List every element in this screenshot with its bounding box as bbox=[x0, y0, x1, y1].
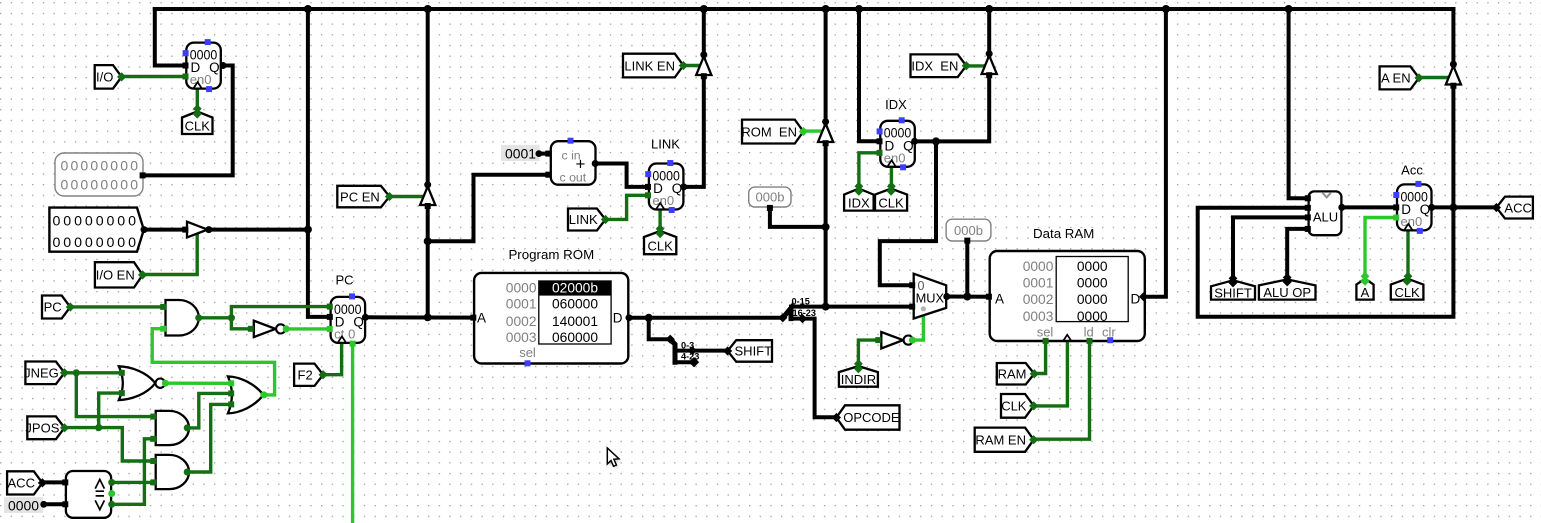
wire CLK to I/O register clock bbox=[196, 89, 199, 111]
pin in2 AND3 bbox=[150, 479, 156, 485]
counter PC bbox=[331, 293, 366, 343]
wire ROM EN to buffer enable bbox=[803, 129, 821, 132]
pin D I/O register bbox=[183, 63, 189, 69]
wire IDX tunnel to IDX enable bbox=[859, 153, 880, 188]
tunnel OPCODE bbox=[832, 405, 900, 429]
wire trunk to ALU input A bbox=[1289, 9, 1309, 198]
svg-text:0001: 0001 bbox=[506, 297, 537, 312]
pin Q Acc bbox=[1428, 204, 1435, 211]
tunnel INDIR bbox=[839, 364, 878, 387]
wire probe 000b tap bbox=[770, 208, 826, 227]
AND gate A3 (JPOS and gt) bbox=[156, 455, 189, 489]
pin en PC bbox=[327, 326, 333, 332]
pin en I/O register bbox=[183, 74, 189, 80]
tunnel ALU OP bbox=[1259, 277, 1316, 300]
pin D PC bbox=[327, 314, 333, 320]
svg-text:02000b: 02000b bbox=[552, 281, 598, 296]
NOR gate (jump negative) bbox=[119, 366, 165, 400]
svg-text:ALU: ALU bbox=[1313, 210, 1338, 225]
MUX (IDX / literal address) bbox=[914, 274, 947, 319]
wire I/O EN to buffer enable bbox=[143, 234, 198, 275]
pin lt comparator bbox=[108, 501, 115, 508]
tunnel RAM bbox=[997, 363, 1039, 385]
svg-text:0003: 0003 bbox=[1023, 309, 1054, 324]
pin in IDX EN buffer bbox=[986, 72, 992, 78]
comparator (ACC vs 0) bbox=[66, 471, 111, 518]
RAM Data RAM bbox=[990, 251, 1145, 343]
svg-text:ACC: ACC bbox=[8, 476, 35, 491]
tunnel A EN bbox=[1380, 66, 1424, 89]
wire AND2 out to OR bbox=[188, 393, 230, 428]
pin in1 AND2 bbox=[150, 414, 156, 420]
AND gate A1 (PC load) bbox=[166, 300, 199, 336]
node AND1 output branch bbox=[228, 314, 235, 321]
pin out I/O buffer bbox=[205, 226, 212, 233]
node INDIR wire end bbox=[854, 359, 863, 368]
svg-text:RAM EN: RAM EN bbox=[975, 432, 1026, 447]
wire LINK Q to LINK EN buffer bbox=[683, 75, 704, 187]
pin A ALU bbox=[1305, 195, 1311, 201]
wire OR out to AND1 bbox=[152, 329, 274, 395]
pin out ALU bbox=[1338, 204, 1345, 211]
tunnel LINK bbox=[568, 209, 610, 231]
pin in A EN buffer bbox=[1450, 83, 1456, 89]
pin shift ALU bbox=[1305, 214, 1311, 220]
svg-text:Data RAM: Data RAM bbox=[1033, 226, 1094, 241]
controlled buffer PC EN bbox=[420, 187, 435, 206]
node trunk ROM EN bbox=[822, 5, 830, 13]
pin out LINK EN buffer bbox=[700, 51, 707, 58]
register I/O buffer bbox=[183, 39, 221, 92]
wire splitter 0-15 to MUX input 1 bbox=[802, 305, 912, 309]
pin Q PC bbox=[362, 314, 369, 321]
wire PC tunnel to AND gate bbox=[70, 305, 165, 308]
pin Q LINK bbox=[680, 183, 687, 190]
pin out NOT1 bbox=[283, 325, 290, 332]
pin D IDX bbox=[877, 138, 883, 144]
wire PC carry out bbox=[351, 343, 354, 523]
pin en LINK bbox=[645, 192, 651, 198]
svg-text:JPOS: JPOS bbox=[25, 421, 59, 436]
tunnel CLK bbox=[1391, 277, 1424, 300]
wire IDX Q to IDX EN buffer bbox=[936, 74, 989, 142]
node IDX Q branch bbox=[932, 137, 940, 145]
wire ACC tunnel to comparator A bbox=[42, 480, 66, 484]
wire IDX EN to buffer enable bbox=[966, 64, 985, 67]
pin out MUX bbox=[943, 293, 950, 300]
pin out AND3 bbox=[184, 469, 191, 476]
tunnel JNEG bbox=[24, 362, 69, 385]
svg-text:OPCODE: OPCODE bbox=[843, 410, 900, 425]
probe 000b (ROM low bits) bbox=[749, 187, 791, 207]
constant 0001 bbox=[501, 145, 542, 162]
node trunk PC EN bbox=[424, 5, 432, 13]
splitter ROM D 0-3 / 4-23 bbox=[666, 335, 700, 368]
svg-text:en0: en0 bbox=[1401, 214, 1423, 229]
svg-text:0-3: 0-3 bbox=[681, 340, 694, 350]
wire adder out to LINK D bbox=[595, 164, 649, 187]
input pin I/O value bbox=[49, 208, 143, 252]
node PC Q branch bbox=[424, 313, 432, 321]
pin in1 MUX bbox=[909, 304, 915, 310]
wire AND out to PC load bbox=[231, 307, 330, 318]
wire AND3 out to OR bbox=[188, 404, 230, 472]
svg-text:4-23: 4-23 bbox=[681, 352, 699, 362]
svg-text:D: D bbox=[1131, 291, 1141, 306]
tunnel SHIFT bbox=[723, 340, 772, 362]
mouse cursor bbox=[607, 448, 621, 469]
svg-text:140001: 140001 bbox=[552, 314, 598, 329]
pin a adder bbox=[545, 151, 551, 157]
wire ALU OP tunnel to ALU bbox=[1287, 229, 1308, 280]
node SHIFT wire end bbox=[1229, 274, 1238, 283]
wire trunk to PC D bbox=[308, 9, 331, 317]
wire RAM tunnel to RAM sel bbox=[1034, 340, 1045, 374]
wire inverter to MUX select bbox=[912, 315, 924, 341]
wire INDIR to inverter bbox=[858, 340, 877, 364]
svg-text:I/O: I/O bbox=[96, 70, 113, 85]
tunnel ACC bbox=[1492, 197, 1533, 219]
wire ALU out to Acc D bbox=[1341, 205, 1397, 209]
controlled buffer I/O EN bbox=[187, 222, 208, 238]
tunnel I/O EN bbox=[95, 262, 147, 287]
pin in0 MUX bbox=[909, 282, 915, 288]
svg-text:ALU OP: ALU OP bbox=[1263, 285, 1311, 300]
node Acc Q feedback bbox=[1449, 203, 1457, 211]
node ALU OP wire end bbox=[1283, 273, 1292, 282]
svg-text:0: 0 bbox=[348, 326, 355, 341]
node CLK wire end (Acc) bbox=[1404, 272, 1413, 281]
svg-text:ld: ld bbox=[1084, 325, 1094, 340]
tunnel PC EN bbox=[337, 186, 394, 208]
wire AND out to inverter bbox=[231, 318, 252, 329]
tunnel SHIFT bbox=[1211, 278, 1255, 300]
wire CLK to RAM clock bbox=[1034, 340, 1068, 406]
wire I/O tunnel to register enable bbox=[122, 75, 187, 78]
svg-text:en0: en0 bbox=[652, 193, 674, 208]
node CLK wire end (I/O) bbox=[193, 104, 202, 113]
pin in1 AND3 bbox=[150, 458, 156, 464]
svg-text:000b: 000b bbox=[756, 190, 785, 205]
pin b adder bbox=[545, 172, 551, 178]
wire ROM D branch to shift splitter bbox=[649, 318, 671, 339]
ROM Program ROM bbox=[474, 273, 628, 366]
pin A RAM bbox=[986, 294, 992, 300]
adder (PC + 1) bbox=[551, 138, 596, 185]
node CLK wire end (LINK) bbox=[656, 224, 665, 233]
svg-text:ROM EN: ROM EN bbox=[741, 124, 797, 139]
tunnel JPOS bbox=[25, 416, 69, 439]
wire PC EN buffer to PC bus bbox=[426, 205, 430, 318]
pin out adder bbox=[592, 160, 599, 167]
svg-text:0000: 0000 bbox=[1077, 309, 1108, 324]
svg-text:INDIR: INDIR bbox=[841, 372, 876, 387]
pin A comparator bbox=[62, 479, 68, 485]
pin in I/O buffer bbox=[182, 227, 188, 233]
pin probe 000b ram bbox=[964, 238, 970, 244]
svg-text:A EN: A EN bbox=[1381, 71, 1411, 86]
wire trunk to LINK EN buffer bbox=[702, 9, 706, 57]
node trunk PC bbox=[304, 5, 312, 13]
wire PC bus to adder bbox=[428, 175, 549, 242]
svg-text:A: A bbox=[477, 310, 486, 325]
svg-text:0000: 0000 bbox=[1023, 259, 1054, 274]
tunnel F2 bbox=[294, 364, 328, 386]
wire Acc feedback loop to ALU bbox=[1198, 207, 1454, 316]
tunnel ACC bbox=[7, 471, 47, 494]
wire Acc Q to ACC tunnel bbox=[1431, 205, 1496, 209]
node trunk ALU bbox=[1285, 5, 1293, 13]
wire trunk to A EN buffer bbox=[1451, 9, 1455, 66]
tunnel CLK bbox=[644, 229, 676, 254]
svg-text:0000: 0000 bbox=[8, 498, 39, 513]
svg-text:000b: 000b bbox=[954, 223, 983, 238]
pin D Acc bbox=[1393, 204, 1399, 210]
pin D ROM bbox=[626, 314, 633, 321]
wire JNEG to NOR bbox=[65, 371, 121, 374]
node trunk RAM bbox=[1162, 5, 1170, 13]
pin in NOT1 bbox=[248, 326, 254, 332]
wire PC EN to buffer enable bbox=[390, 195, 423, 198]
wire NOR out to OR bbox=[164, 382, 230, 385]
wire data bus trunk bbox=[155, 7, 1454, 11]
wire SHIFT tunnel to ALU bbox=[1233, 217, 1309, 281]
wire ROM D to splitter bbox=[628, 316, 783, 320]
pin in2 NOR bbox=[119, 390, 125, 396]
wire splitter 16-23 to OPCODE bbox=[803, 319, 837, 418]
tunnel IDX bbox=[844, 187, 874, 211]
tunnel IDX&#160;&#160;EN bbox=[911, 54, 971, 77]
svg-text:0000: 0000 bbox=[1077, 276, 1108, 291]
svg-text:I/O EN: I/O EN bbox=[96, 268, 135, 283]
probe 000b (RAM address) bbox=[946, 219, 991, 241]
pin in NOT2 bbox=[875, 337, 881, 343]
pin in1 NOR bbox=[119, 370, 125, 376]
pin out PC EN buffer bbox=[424, 181, 431, 188]
svg-text:IDX EN: IDX EN bbox=[911, 58, 958, 73]
svg-text:A: A bbox=[995, 291, 1004, 306]
pin A ROM bbox=[470, 315, 476, 321]
node PC adder branch bbox=[424, 237, 432, 245]
svg-text:Program ROM: Program ROM bbox=[508, 247, 594, 262]
svg-text:IDX: IDX bbox=[885, 97, 907, 112]
svg-text:JNEG: JNEG bbox=[24, 366, 59, 381]
wire JPOS to AND3 bbox=[99, 428, 156, 461]
tunnel PC bbox=[42, 296, 75, 319]
svg-text:060000: 060000 bbox=[552, 297, 598, 312]
pin out NOR bbox=[162, 380, 169, 387]
wire splitter 0-3 to SHIFT tunnel bbox=[692, 349, 727, 353]
wire inverter to PC enable bbox=[285, 327, 330, 330]
pin ld RAM bbox=[1087, 338, 1093, 344]
wire A tunnel to Acc enable bbox=[1365, 218, 1397, 278]
wire RAM EN to RAM ld bbox=[1034, 340, 1090, 439]
node probe tap bbox=[822, 223, 830, 231]
wire AND out junction bbox=[199, 316, 232, 319]
svg-text:0001: 0001 bbox=[1023, 276, 1054, 291]
svg-text:F2: F2 bbox=[298, 367, 313, 382]
wire A EN buffer input from Acc Q bbox=[1451, 86, 1455, 208]
svg-text:0-15: 0-15 bbox=[792, 297, 810, 307]
pin out A EN buffer bbox=[1450, 61, 1457, 68]
pin Q I/O register bbox=[220, 62, 227, 69]
ALU bbox=[1309, 191, 1342, 235]
svg-text:0000: 0000 bbox=[1077, 259, 1108, 274]
pin out OR bbox=[260, 391, 267, 398]
controlled buffer A EN bbox=[1446, 66, 1461, 85]
pin out NOT2 bbox=[909, 337, 916, 344]
pin in LINK EN buffer bbox=[701, 73, 707, 79]
svg-text:PC: PC bbox=[335, 272, 353, 287]
svg-text:0001: 0001 bbox=[505, 146, 536, 161]
svg-text:0002: 0002 bbox=[506, 314, 537, 329]
wire PC Q to ROM A bbox=[365, 315, 475, 319]
pin in ROM EN buffer bbox=[823, 140, 829, 146]
svg-text:en0: en0 bbox=[884, 150, 906, 165]
pin probe 000b rom bbox=[767, 205, 773, 211]
svg-text:PC: PC bbox=[44, 300, 62, 315]
pin out IDX EN buffer bbox=[986, 50, 993, 57]
svg-text:0003: 0003 bbox=[506, 330, 537, 345]
wire ROM EN buffer input bbox=[824, 140, 828, 307]
svg-text:MUX: MUX bbox=[916, 290, 945, 305]
pin in1 AND1 bbox=[160, 304, 166, 310]
node ROM D branch bbox=[645, 314, 653, 322]
pin D LINK bbox=[645, 184, 651, 190]
wire trunk to ROM EN buffer bbox=[824, 9, 828, 124]
node A tunnel wire end bbox=[1361, 272, 1370, 281]
pin en Acc bbox=[1393, 215, 1399, 221]
svg-text:c out: c out bbox=[560, 170, 587, 184]
probe I/O output (binary) bbox=[55, 153, 143, 196]
node CLK wire end (IDX) bbox=[887, 182, 896, 191]
pin in1 OR bbox=[228, 380, 234, 386]
svg-text:00000000: 00000000 bbox=[61, 158, 139, 174]
node JNEG branch bbox=[73, 369, 80, 376]
register LINK bbox=[645, 160, 683, 213]
pin B comparator bbox=[62, 501, 68, 507]
wire JPOS to NOR bbox=[99, 393, 121, 428]
pin in2 AND1 bbox=[160, 326, 166, 332]
node trunk IDX bbox=[855, 5, 863, 13]
node IDX tunnel wire end bbox=[855, 182, 864, 191]
node JPOS branch bbox=[95, 424, 102, 431]
wire F2 to PC clock bbox=[323, 343, 342, 375]
wire trunk to IDX EN buffer bbox=[987, 9, 991, 56]
tunnel LINK EN bbox=[623, 54, 688, 78]
wire I/O register Q to probe bbox=[143, 66, 233, 176]
pin load PC bbox=[327, 304, 333, 310]
tunnel A bbox=[1356, 277, 1373, 300]
svg-text:en0: en0 bbox=[190, 72, 212, 87]
wire A EN to buffer enable bbox=[1419, 76, 1449, 79]
wire I/O buffer output to bus bbox=[209, 228, 308, 232]
node splitter to buffer bbox=[822, 303, 830, 311]
controlled buffer LINK EN bbox=[696, 57, 711, 76]
tunnel CLK bbox=[182, 109, 213, 134]
svg-text:CLK: CLK bbox=[1001, 399, 1027, 414]
svg-text:LINK EN: LINK EN bbox=[624, 58, 675, 73]
wire MUX out to probe 000b bbox=[965, 241, 969, 297]
controlled buffer ROM EN bbox=[818, 124, 833, 143]
svg-text:0002: 0002 bbox=[1023, 292, 1054, 307]
node MUX out probe bbox=[963, 293, 971, 301]
node trunk IDX EN bbox=[985, 5, 993, 13]
wire CLK to IDX clock bbox=[890, 162, 893, 188]
pin in2 OR bbox=[228, 390, 234, 396]
svg-text:0000: 0000 bbox=[1077, 292, 1108, 307]
svg-text:00000000: 00000000 bbox=[61, 177, 139, 193]
svg-text:16-23: 16-23 bbox=[793, 308, 817, 318]
controlled buffer IDX EN bbox=[982, 56, 997, 75]
svg-text:CLK: CLK bbox=[878, 195, 904, 210]
wire trunk to IDX D bbox=[859, 9, 880, 141]
pin probe I/O bbox=[140, 172, 146, 178]
svg-text:RAM: RAM bbox=[998, 366, 1027, 381]
pin out input pin bbox=[141, 226, 148, 233]
pin sel RAM bbox=[1043, 338, 1049, 344]
pin out AND2 bbox=[184, 424, 191, 431]
svg-text:Acc: Acc bbox=[1401, 163, 1423, 178]
svg-text:LINK: LINK bbox=[651, 137, 680, 152]
svg-text:SHIFT: SHIFT bbox=[735, 344, 773, 359]
pin in3 OR bbox=[228, 401, 234, 407]
svg-text:sel: sel bbox=[1037, 325, 1054, 340]
wire LINK tunnel to LINK enable bbox=[606, 195, 649, 219]
wire input pin to buffer bbox=[144, 228, 187, 232]
pin en IDX bbox=[877, 150, 883, 156]
wire trunk to PC EN buffer bbox=[426, 9, 430, 187]
wire LINK EN to buffer enable bbox=[683, 64, 700, 67]
wire constant 0001 to adder c in bbox=[539, 152, 548, 156]
wire trunk to RAM D bbox=[1145, 9, 1166, 297]
pin eq comparator bbox=[108, 490, 115, 497]
wire IDX Q to MUX input 0 bbox=[880, 141, 936, 285]
NOT gate N1 (PC enable) bbox=[254, 321, 286, 337]
pin op ALU bbox=[1305, 226, 1311, 232]
wire MUX out to RAM A bbox=[946, 295, 990, 299]
svg-text:IDX: IDX bbox=[848, 195, 870, 210]
wire CLK to LINK clock bbox=[658, 210, 661, 231]
pin gt comparator bbox=[108, 479, 115, 486]
constant 0000 bbox=[4, 497, 47, 513]
wire comparator gt to AND3 bbox=[111, 481, 156, 484]
svg-text:sel: sel bbox=[519, 345, 536, 360]
register Acc bbox=[1393, 181, 1431, 234]
pin out ROM EN buffer bbox=[822, 118, 829, 125]
svg-text:060000: 060000 bbox=[552, 330, 598, 345]
pin D RAM bbox=[1139, 292, 1148, 301]
svg-text:CLK: CLK bbox=[1394, 285, 1420, 300]
pin carry PC bbox=[350, 341, 356, 347]
wire JNEG to AND2 bbox=[76, 373, 155, 417]
node trunk LINK EN bbox=[700, 5, 708, 13]
wire constant 0000 to comparator B bbox=[44, 502, 66, 506]
svg-text:PC EN: PC EN bbox=[340, 189, 380, 204]
register IDX bbox=[877, 117, 915, 170]
NOT gate N2 (INDIR) bbox=[881, 332, 913, 348]
tunnel CLK bbox=[1001, 394, 1038, 418]
AND gate A2 (JNEG and lt) bbox=[156, 411, 189, 445]
svg-text:CLK: CLK bbox=[185, 118, 211, 133]
wire comparator lt to AND2 bbox=[111, 439, 156, 505]
node bus - I/O branch bbox=[304, 226, 312, 234]
wire trunk to I/O register D bbox=[155, 9, 187, 66]
tunnel ROM&#160;&#160;EN bbox=[741, 120, 808, 144]
OR gate (jump condition) bbox=[228, 376, 264, 413]
svg-text:A: A bbox=[1361, 285, 1370, 300]
pin in PC EN buffer bbox=[425, 203, 431, 209]
